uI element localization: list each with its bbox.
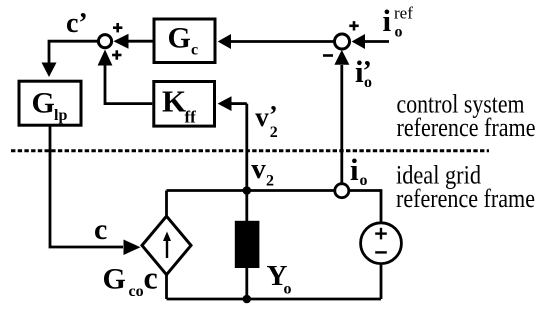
- svg-text:ref: ref: [394, 4, 413, 23]
- svg-text:o: o: [364, 74, 372, 91]
- svg-text:c: c: [144, 260, 158, 296]
- svg-text:reference frame: reference frame: [396, 184, 535, 213]
- svg-text:i: i: [350, 152, 359, 187]
- svg-text:c: c: [191, 42, 198, 59]
- svg-text:ff: ff: [185, 108, 197, 127]
- svg-text:co: co: [129, 283, 144, 300]
- svg-text:G: G: [168, 22, 191, 55]
- svg-text:o: o: [360, 172, 368, 189]
- svg-text:K: K: [162, 83, 186, 118]
- svg-text:lp: lp: [54, 107, 67, 124]
- svg-text:2: 2: [266, 173, 274, 190]
- svg-text:v: v: [255, 102, 269, 132]
- svg-text:v: v: [251, 153, 266, 185]
- svg-text:2: 2: [270, 124, 278, 141]
- svg-text:o: o: [284, 281, 292, 298]
- svg-text:o: o: [395, 24, 403, 41]
- svg-text:c’: c’: [66, 8, 88, 39]
- svg-text:G: G: [103, 263, 126, 296]
- svg-text:i: i: [383, 3, 392, 38]
- svg-text:G: G: [32, 87, 55, 120]
- svg-text:reference frame: reference frame: [397, 113, 536, 142]
- svg-text:c: c: [94, 213, 107, 246]
